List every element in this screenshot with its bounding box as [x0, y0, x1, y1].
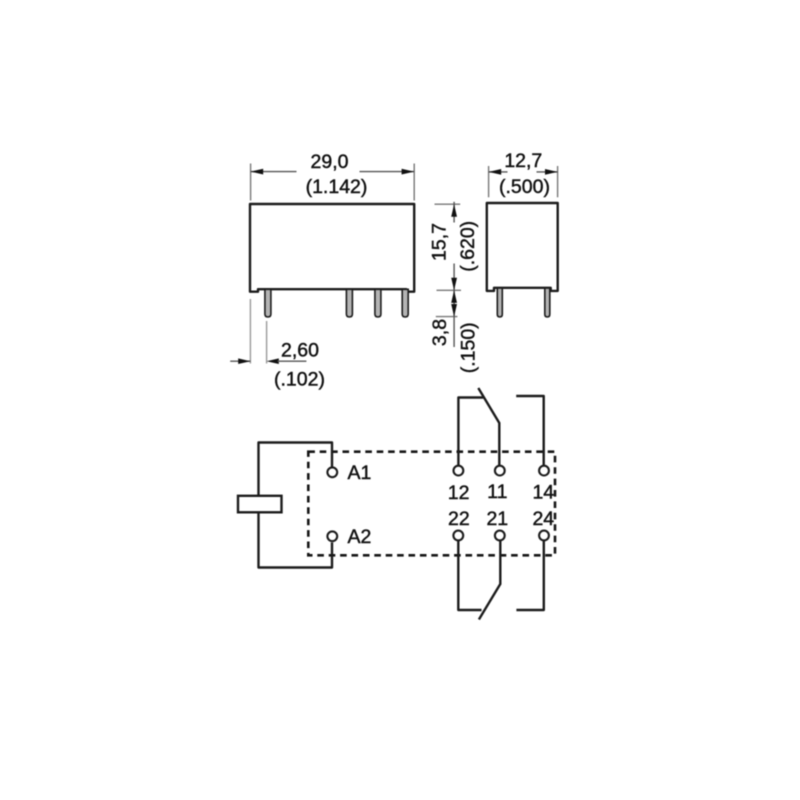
relay side view case: [250, 204, 414, 292]
dim 15,7 dimension line: [453, 202, 455, 223]
dim 3,8 arrowhead up: [451, 290, 457, 303]
dim 15,7 bottom extension line: [437, 289, 462, 291]
dim 2,60 dimension line right tail: [278, 360, 307, 362]
side view pin 1: [265, 289, 271, 317]
contact 12 wire: [458, 398, 483, 466]
dim 29,0 extension line left: [250, 164, 252, 201]
svg-text:2,60: 2,60: [281, 339, 319, 361]
dashed relay outline box: [308, 452, 555, 556]
contact 21 lever wire: [479, 541, 500, 620]
dim 12,7 arrowhead right: [545, 169, 558, 175]
side view pin 2: [346, 289, 352, 317]
dim 2,60 extension line from pin: [266, 321, 268, 364]
dim 12,7 arrowhead left: [489, 169, 502, 175]
terminal A1 circle: [327, 467, 337, 477]
dim 2,60 extension line from case edge: [249, 299, 251, 364]
dim 3,8 leader tail below: [453, 317, 455, 347]
dim 15,7 arrowhead up: [451, 204, 457, 217]
dim 3,8 dimension line: [453, 290, 455, 316]
svg-text:(.620): (.620): [457, 221, 479, 272]
svg-text:A1: A1: [348, 462, 372, 484]
dim 29,0 dimension line: [251, 171, 297, 173]
relay end view case: [487, 203, 558, 291]
side view pin 3: [375, 289, 381, 317]
terminal 24 circle: [539, 531, 549, 541]
svg-text:12,7: 12,7: [504, 150, 542, 172]
dim 29,0 arrowhead right: [402, 169, 415, 175]
svg-text:11: 11: [487, 481, 507, 503]
svg-text:(.500): (.500): [499, 176, 550, 198]
svg-text:24: 24: [532, 508, 554, 530]
coil wire loop bottom: [259, 513, 333, 568]
svg-text:22: 22: [448, 508, 470, 530]
dim 12,7 extension line right: [557, 166, 559, 197]
dim 15,7 top extension line: [435, 203, 461, 205]
svg-text:(1.142): (1.142): [306, 176, 368, 198]
svg-text:A2: A2: [348, 526, 372, 548]
dim 15,7 arrowhead down: [451, 278, 457, 291]
dim 29,0 extension line right: [413, 164, 415, 201]
terminal 21 circle: [495, 531, 505, 541]
svg-text:14: 14: [532, 482, 554, 504]
contact 14 wire: [516, 396, 544, 465]
terminal 22 circle: [453, 531, 463, 541]
svg-text:21: 21: [486, 508, 508, 530]
coil K1 box: [238, 496, 282, 513]
dim 3,8 bottom extension line: [436, 316, 458, 318]
dim 3,8 arrowhead down: [451, 304, 457, 317]
contact 24 wire: [516, 541, 543, 610]
coil wire loop top: [259, 443, 333, 496]
terminal 12 circle: [454, 466, 464, 476]
terminal A2 circle: [327, 531, 337, 541]
contact 22 wire: [458, 541, 481, 610]
dim 12,7 dimension line: [489, 171, 508, 173]
side view pin 4: [402, 289, 408, 317]
dim 29,0 arrowhead left: [251, 169, 264, 175]
svg-text:(.150): (.150): [458, 322, 480, 373]
terminal 14 circle: [539, 466, 549, 476]
contact 11 lever wire: [478, 388, 499, 465]
svg-text:3,8: 3,8: [429, 319, 451, 346]
end view pin right: [545, 288, 550, 317]
dim 2,60 arrowhead pointing left: [267, 358, 279, 364]
end view pin left: [497, 288, 502, 317]
svg-text:(.102): (.102): [274, 369, 325, 391]
dim 2,60 dimension line left tail: [230, 360, 250, 362]
svg-text:29,0: 29,0: [311, 151, 349, 173]
dim 2,60 arrowhead pointing right: [238, 358, 250, 364]
dim 12,7 extension line left: [488, 166, 490, 197]
terminal 11 circle: [495, 466, 505, 476]
svg-text:12: 12: [448, 482, 470, 504]
svg-text:15,7: 15,7: [428, 223, 450, 261]
